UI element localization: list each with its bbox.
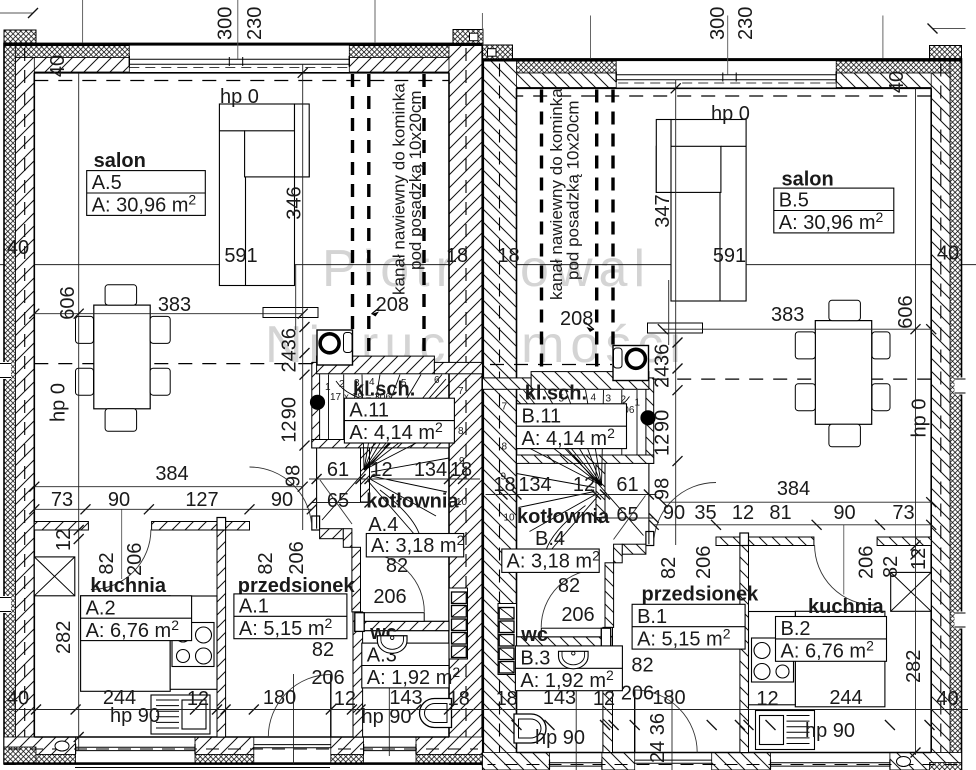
svg-text:18: 18 [446, 245, 468, 267]
svg-text:12: 12 [370, 459, 392, 481]
svg-text:5: 5 [559, 394, 565, 405]
svg-text:90: 90 [271, 489, 293, 511]
svg-text:hp 0: hp 0 [711, 103, 750, 125]
door arc przedsionek/salon [250, 467, 312, 530]
svg-text:61: 61 [327, 459, 349, 481]
svg-text:347: 347 [652, 194, 674, 227]
top wall band right piece [349, 46, 483, 58]
svg-text:10: 10 [504, 513, 516, 524]
svg-text:18: 18 [497, 245, 519, 267]
svg-text:A: 6,76 m2: A: 6,76 m2 [86, 617, 180, 642]
svg-text:206: 206 [124, 543, 146, 576]
svg-text:A.11: A.11 [349, 400, 389, 422]
svg-text:hp 90: hp 90 [110, 705, 160, 727]
svg-text:35: 35 [694, 502, 716, 524]
ticks [29, 309, 39, 319]
svg-text:230: 230 [735, 7, 757, 40]
svg-text:B.3: B.3 [520, 647, 550, 669]
svg-text:36: 36 [652, 344, 674, 366]
dashed axis inside left wall [24, 48, 26, 758]
svg-text:346: 346 [284, 186, 306, 219]
svg-text:24: 24 [279, 350, 301, 372]
svg-text:180: 180 [652, 687, 685, 709]
svg-text:206: 206 [693, 546, 715, 579]
pillar top-left corner [4, 30, 36, 43]
door leaf kotlownia [320, 480, 352, 524]
dashed line below top wall [34, 80, 449, 82]
svg-text:A: 3,18 m2: A: 3,18 m2 [371, 532, 465, 557]
party wall top pillar [453, 30, 483, 44]
chimney flue blocks in party wall [449, 588, 468, 659]
svg-text:hp 0: hp 0 [48, 383, 70, 422]
kitchen window bottom [76, 746, 195, 748]
wc washbasin [377, 636, 407, 654]
svg-text:90: 90 [652, 410, 674, 432]
svg-text:18: 18 [496, 688, 518, 710]
svg-text:A: 5,15 m2: A: 5,15 m2 [637, 625, 731, 650]
svg-text:wc: wc [520, 624, 548, 646]
left wall niche hp0 [0, 362, 11, 379]
hp0 axis dashed [34, 363, 312, 365]
salon window (300/230) in top wall [129, 58, 349, 60]
svg-text:90: 90 [108, 489, 130, 511]
wall west of staircase [312, 362, 320, 448]
svg-text:98: 98 [652, 478, 674, 500]
svg-text:A.5: A.5 [92, 172, 122, 194]
svg-text:A: 5,15 m2: A: 5,15 m2 [239, 615, 333, 640]
svg-text:300: 300 [215, 7, 237, 40]
svg-text:A: 4,14 m2: A: 4,14 m2 [522, 425, 616, 450]
svg-text:98: 98 [283, 465, 305, 487]
svg-text:8: 8 [502, 442, 508, 453]
svg-text:pod posadzką 10x20cm: pod posadzką 10x20cm [406, 90, 425, 270]
svg-text:61: 61 [616, 474, 638, 496]
dashed axis in bottom wall [8, 748, 478, 750]
svg-text:206: 206 [621, 683, 654, 705]
svg-text:282: 282 [903, 650, 925, 683]
svg-text:B.2: B.2 [781, 618, 811, 640]
wall wc top [355, 621, 449, 630]
section mark dot [310, 395, 325, 410]
kitchen island counter [81, 596, 171, 692]
entrance door leaf and arc [330, 675, 332, 738]
svg-text:606: 606 [895, 295, 917, 328]
svg-text:12: 12 [53, 529, 75, 551]
svg-text:206: 206 [373, 586, 406, 608]
svg-text:230: 230 [244, 7, 266, 40]
bottom exterior wall [4, 762, 483, 765]
svg-text:40: 40 [7, 688, 29, 710]
svg-text:591: 591 [224, 245, 257, 267]
svg-text:6: 6 [434, 375, 440, 386]
sofa [219, 104, 294, 286]
svg-text:36: 36 [279, 328, 301, 350]
svg-text:12: 12 [756, 688, 778, 710]
kitchen east counter [170, 596, 217, 689]
svg-text:40: 40 [47, 55, 69, 77]
fireplace [317, 330, 353, 365]
door arc kitchen [91, 530, 151, 590]
svg-text:A: 30,96 m2: A: 30,96 m2 [779, 209, 884, 234]
svg-text:82: 82 [255, 552, 277, 574]
svg-text:82: 82 [96, 552, 118, 574]
kitchen appliance bottom [151, 695, 210, 734]
svg-text:kotłownia: kotłownia [517, 506, 610, 528]
svg-text:384: 384 [777, 478, 810, 500]
svg-text:82: 82 [631, 655, 653, 677]
svg-text:134: 134 [414, 459, 447, 481]
svg-text:B.1: B.1 [637, 606, 667, 628]
svg-text:244: 244 [829, 687, 862, 709]
svg-text:12: 12 [334, 688, 356, 710]
svg-text:40: 40 [886, 71, 908, 93]
svg-text:40: 40 [936, 688, 958, 710]
top wall heavy outer line [4, 43, 483, 46]
svg-text:1: 1 [635, 398, 641, 409]
svg-text:82: 82 [558, 575, 580, 597]
svg-text:A.4: A.4 [368, 514, 398, 536]
svg-text:3: 3 [606, 394, 612, 405]
svg-text:A: 1,92 m2: A: 1,92 m2 [367, 664, 461, 689]
svg-text:90: 90 [663, 502, 685, 524]
svg-text:2: 2 [621, 395, 627, 406]
svg-text:1: 1 [325, 382, 331, 393]
svg-text:206: 206 [856, 546, 878, 579]
entrance door sill [254, 744, 331, 746]
svg-text:4: 4 [591, 393, 597, 404]
svg-text:A: 3,18 m2: A: 3,18 m2 [507, 548, 601, 573]
svg-text:300: 300 [707, 7, 729, 40]
svg-text:18: 18 [493, 474, 515, 496]
svg-text:90: 90 [833, 502, 855, 524]
svg-text:A.2: A.2 [86, 597, 116, 619]
toilet [420, 699, 452, 728]
svg-text:A: 4,14 m2: A: 4,14 m2 [349, 419, 443, 444]
party wall left half [449, 46, 482, 765]
svg-text:81: 81 [769, 502, 791, 524]
svg-text:7: 7 [502, 402, 508, 413]
left exterior wall [4, 46, 16, 765]
svg-text:143: 143 [543, 687, 576, 709]
svg-text:12: 12 [732, 502, 754, 524]
svg-text:24: 24 [652, 366, 674, 388]
svg-text:kuchnia: kuchnia [90, 575, 166, 597]
shared dimension line 591 [0, 264, 976, 266]
small ellipse on bottom wall [55, 741, 69, 751]
top wall interior face line [34, 72, 449, 74]
svg-text:hp 90: hp 90 [805, 720, 855, 742]
wall kitchen/salon [34, 522, 88, 531]
svg-text:24 36: 24 36 [647, 713, 669, 763]
svg-text:hp 0: hp 0 [909, 399, 931, 438]
svg-text:A: 6,76 m2: A: 6,76 m2 [781, 638, 875, 663]
svg-text:383: 383 [158, 294, 191, 316]
svg-text:6: 6 [526, 391, 532, 402]
svg-text:208: 208 [376, 294, 409, 316]
svg-text:pod posadzką 10x20cm: pod posadzką 10x20cm [564, 100, 583, 280]
208 arrow [372, 307, 381, 314]
staircase fan treads [362, 375, 364, 471]
svg-text:73: 73 [892, 502, 914, 524]
svg-text:90: 90 [279, 397, 301, 419]
svg-text:kuchnia: kuchnia [808, 596, 884, 618]
chairs [76, 316, 94, 343]
svg-text:salon: salon [94, 150, 146, 172]
svg-text:206: 206 [561, 604, 594, 626]
svg-text:18: 18 [448, 688, 470, 710]
svg-text:127: 127 [185, 489, 218, 511]
svg-text:B.11: B.11 [522, 405, 562, 427]
svg-text:12: 12 [652, 434, 674, 456]
wall przedsionek/wc lower [353, 612, 363, 737]
niche west edge [316, 448, 318, 529]
svg-text:18: 18 [450, 459, 472, 481]
svg-text:2: 2 [339, 379, 345, 390]
svg-text:82: 82 [658, 557, 680, 579]
svg-text:kotłownia: kotłownia [366, 491, 459, 513]
svg-text:przedsionek: przedsionek [642, 584, 760, 606]
svg-text:591: 591 [713, 245, 746, 267]
svg-text:40: 40 [7, 237, 29, 259]
svg-text:82: 82 [386, 555, 408, 577]
svg-text:12: 12 [187, 688, 209, 710]
terrace edge below bottom wall [75, 767, 330, 769]
svg-text:206: 206 [286, 541, 308, 574]
svg-text:B.5: B.5 [779, 190, 809, 212]
svg-text:hp 0: hp 0 [220, 86, 259, 108]
svg-text:A.1: A.1 [239, 595, 269, 617]
svg-text:383: 383 [771, 304, 804, 326]
svg-text:4: 4 [369, 377, 375, 388]
svg-text:12: 12 [573, 474, 595, 496]
stove [172, 623, 214, 667]
svg-text:384: 384 [155, 463, 188, 485]
svg-text:65: 65 [327, 490, 349, 512]
svg-text:3: 3 [354, 378, 360, 389]
svg-text:282: 282 [53, 621, 75, 654]
svg-text:7: 7 [458, 386, 464, 397]
svg-text:180: 180 [263, 687, 296, 709]
svg-text:salon: salon [782, 169, 834, 191]
wall below staircase [312, 440, 449, 448]
svg-text:606: 606 [57, 286, 79, 319]
wall top of staircase [317, 356, 435, 374]
dimension/axis lines [293, 674, 295, 764]
svg-text:B.4: B.4 [535, 528, 565, 550]
svg-text:134: 134 [518, 474, 551, 496]
stair cut line [322, 379, 446, 520]
margin axis lines top [82, 0, 84, 43]
svg-text:12: 12 [593, 688, 615, 710]
shaft with X [34, 557, 75, 596]
svg-text:kl.sch.: kl.sch. [525, 383, 587, 405]
svg-text:40: 40 [937, 243, 959, 265]
svg-text:82: 82 [312, 639, 334, 661]
przedsionek east jog walls [320, 529, 344, 539]
svg-text:8: 8 [458, 426, 464, 437]
svg-text:12: 12 [279, 420, 301, 442]
svg-text:hp 90: hp 90 [535, 727, 585, 749]
tv cabinet [263, 308, 318, 318]
svg-text:73: 73 [51, 489, 73, 511]
svg-text:5: 5 [401, 378, 407, 389]
svg-text:206: 206 [311, 667, 344, 689]
svg-text:A: 30,96 m2: A: 30,96 m2 [92, 192, 197, 217]
dashed axis inside party wall [465, 48, 467, 758]
svg-text:65: 65 [616, 504, 638, 526]
wc window bottom [364, 746, 416, 748]
wall kitchen/przedsionek [217, 530, 226, 737]
dining table [94, 305, 150, 409]
staircase lower flight in kotlownia [371, 458, 449, 472]
svg-text:208: 208 [560, 308, 593, 330]
kanal nawiewny heavy dashed ducts [351, 74, 354, 329]
top wall band left piece [4, 46, 129, 58]
svg-text:82: 82 [880, 556, 902, 578]
kotlownia west wall upper [361, 448, 370, 502]
door arc wc [366, 554, 424, 612]
